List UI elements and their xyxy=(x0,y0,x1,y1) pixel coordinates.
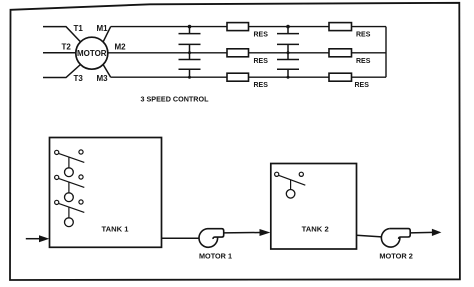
svg-text:M1: M1 xyxy=(97,24,109,33)
svg-text:RES: RES xyxy=(254,58,269,65)
svg-text:T3: T3 xyxy=(74,74,84,83)
svg-text:RES: RES xyxy=(356,58,371,65)
svg-text:3 SPEED CONTROL: 3 SPEED CONTROL xyxy=(141,95,209,104)
svg-text:MOTOR 1: MOTOR 1 xyxy=(199,251,232,260)
svg-text:T2: T2 xyxy=(62,43,72,52)
svg-text:M2: M2 xyxy=(115,43,127,52)
svg-text:RES: RES xyxy=(355,82,370,89)
svg-text:M3: M3 xyxy=(97,74,109,83)
svg-text:T1: T1 xyxy=(74,24,84,33)
svg-text:RES: RES xyxy=(254,32,269,39)
svg-text:RES: RES xyxy=(356,32,371,39)
svg-text:RES: RES xyxy=(254,82,269,89)
svg-text:MOTOR: MOTOR xyxy=(77,49,107,58)
svg-text:MOTOR 2: MOTOR 2 xyxy=(379,252,413,261)
svg-text:TANK 1: TANK 1 xyxy=(102,225,129,234)
svg-text:TANK 2: TANK 2 xyxy=(302,224,329,233)
